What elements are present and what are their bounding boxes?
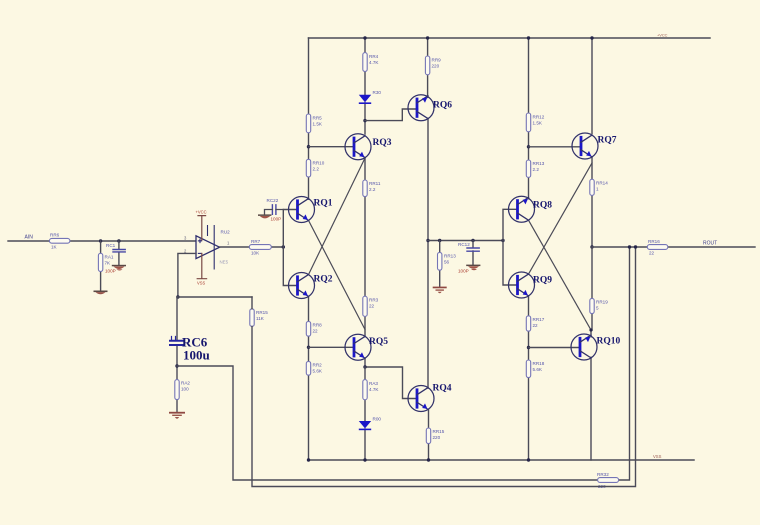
resistor RR12 [526, 113, 544, 132]
svg-text:+VCC: +VCC [657, 32, 668, 37]
svg-text:RR15: RR15 [433, 429, 445, 434]
svg-text:+VCC: +VCC [196, 210, 207, 215]
transistor RQ3 [345, 134, 392, 160]
transistor RQ9 [509, 272, 553, 298]
svg-text:RR6: RR6 [50, 233, 60, 238]
junction VSS RA3 chain [363, 458, 366, 461]
wire base tie RQ8 RQ9 [503, 209, 518, 285]
capacitor C RC1 [106, 243, 125, 252]
transistor RQ7 [572, 133, 617, 159]
resistor RR3 [363, 296, 379, 316]
junction base tie node [282, 245, 285, 248]
svg-text:5.6K: 5.6K [313, 369, 323, 374]
junction VCC RQ7 [590, 36, 593, 39]
svg-text:RA3: RA3 [369, 381, 378, 386]
resistor RA2 [175, 380, 191, 400]
svg-text:22: 22 [533, 323, 539, 328]
wire AIN input line [8, 240, 196, 242]
svg-text:RR11: RR11 [369, 181, 381, 186]
wire VCC rail [309, 37, 711, 39]
capacitor RC6 [170, 337, 184, 346]
wire RQ5 emitter to RQ4 base [365, 358, 418, 398]
junction mid node [426, 239, 429, 242]
svg-text:RR18: RR18 [533, 361, 545, 366]
svg-text:100u: 100u [183, 348, 210, 363]
svg-text:RR2: RR2 [313, 363, 323, 368]
ground near RC22 [258, 214, 271, 218]
svg-text:RQ10: RQ10 [597, 337, 621, 347]
junction base tie mid [501, 239, 504, 242]
svg-text:1K: 1K [51, 244, 58, 249]
wire op-amp inverting input [178, 253, 196, 297]
svg-text:11K: 11K [256, 316, 265, 321]
wire RQ9 emitter chain [528, 296, 530, 460]
svg-text:22: 22 [649, 251, 655, 256]
svg-text:VSS: VSS [653, 454, 662, 459]
junction RQ10 emitter node [589, 328, 592, 331]
power +VCC op-amp [196, 210, 207, 240]
svg-text:56: 56 [444, 260, 450, 265]
junction VCC RR12 [527, 36, 530, 39]
svg-text:RQ5: RQ5 [369, 337, 388, 347]
svg-text:2.2: 2.2 [313, 167, 320, 172]
svg-text:NE5: NE5 [220, 260, 229, 265]
wire RQ7 collector [591, 38, 593, 134]
svg-text:RR15: RR15 [256, 310, 268, 315]
resistor RR6 [49, 233, 70, 250]
wire RQ3 base [309, 146, 355, 148]
transistor RQ4 [408, 384, 452, 412]
svg-text:RQ8: RQ8 [533, 201, 552, 211]
resistor RR8 [306, 321, 322, 336]
svg-text:RA2: RA2 [181, 381, 190, 386]
svg-text:RC22: RC22 [267, 198, 279, 203]
wire diagonal RQ9 to RQ7 [529, 163, 593, 274]
junction VCC RR9 [426, 36, 429, 39]
svg-text:RQ7: RQ7 [598, 136, 617, 146]
svg-text:RQ2: RQ2 [314, 275, 333, 285]
junction RR13 tap [438, 239, 441, 242]
op-amp RU2 [184, 226, 230, 270]
transistor RQ8 [509, 196, 553, 222]
resistor RR16 [647, 239, 668, 256]
svg-text:RC1: RC1 [106, 243, 116, 248]
wire RC1 drop [118, 241, 120, 265]
junction inverting feedback node [176, 295, 179, 298]
transistor RQ5 [345, 334, 388, 360]
wire RA3 diode chain [364, 367, 366, 460]
svg-text:R00: R00 [373, 417, 382, 422]
capacitor RC12 [458, 242, 479, 251]
svg-text:1: 1 [596, 187, 599, 192]
svg-text:RR5: RR5 [313, 116, 323, 121]
svg-text:22: 22 [313, 329, 319, 334]
wire diagonal RQ8 to RQ10 [529, 220, 592, 330]
svg-text:5.6K: 5.6K [533, 367, 543, 372]
junction RQ10 base node [527, 346, 530, 349]
wire output line [592, 246, 755, 248]
wire RQ4 emitter [428, 409, 430, 460]
wire RQ3 collector chain (RR4 diode branch) [364, 38, 366, 134]
wire output drop to RR19 [591, 247, 592, 337]
wire RA1 drop [100, 241, 102, 290]
resistor RR13 [438, 252, 457, 270]
svg-text:VSS: VSS [197, 280, 205, 285]
svg-text:R30: R30 [373, 90, 382, 95]
ground under RA2 [169, 412, 185, 419]
transistor RQ2 [289, 273, 333, 299]
wire RR13 drop [439, 241, 441, 287]
wire diagonal RQ1 to RQ5 collector [309, 220, 366, 329]
svg-text:2.2: 2.2 [369, 187, 376, 192]
svg-text:4.7K: 4.7K [369, 60, 379, 65]
junction RQ5 base node [307, 346, 310, 349]
wire RQ6 base jog [365, 109, 418, 121]
svg-text:RR12: RR12 [533, 115, 545, 120]
wire RQ6 emitter to rail [427, 38, 429, 97]
svg-text:RQ4: RQ4 [433, 384, 452, 394]
wire feedback line B [252, 247, 636, 487]
ground under RC12 [466, 265, 480, 271]
resistor RA3 [363, 380, 380, 400]
junction VSS left chain [307, 458, 310, 461]
svg-text:RR13: RR13 [533, 161, 545, 166]
diode R00 [359, 417, 382, 431]
junction RC12 tap [471, 239, 474, 242]
wire RQ5 base [309, 346, 355, 348]
junction RQ5 emitter node [363, 365, 366, 368]
ground under RC1 [112, 265, 126, 271]
resistor RR19 [590, 298, 608, 313]
wire RQ10 collector drop [590, 357, 592, 460]
resistor RR7 [249, 239, 271, 256]
junction RQ3 base node [307, 145, 310, 148]
svg-text:100P: 100P [105, 269, 116, 274]
svg-text:1.5K: 1.5K [313, 122, 323, 127]
capacitor RC22 [265, 198, 284, 214]
svg-text:100P: 100P [458, 269, 469, 274]
svg-text:RQ3: RQ3 [373, 138, 392, 148]
ground under RA1 [94, 291, 108, 295]
wire RQ3 emitter chain [364, 158, 366, 337]
svg-text:1.5K: 1.5K [533, 121, 543, 126]
svg-text:AIN: AIN [25, 235, 34, 241]
resistor RR2 [306, 361, 323, 375]
transistor RQ10 [571, 334, 621, 360]
svg-text:RR3: RR3 [369, 298, 379, 303]
resistor RA1 [98, 253, 113, 271]
svg-text:RR8: RR8 [313, 323, 323, 328]
wire feedback node to RR15 [178, 296, 252, 298]
wire RC12 drop [472, 241, 474, 265]
svg-text:RU2: RU2 [221, 230, 231, 235]
junction feedback A tap [628, 245, 631, 248]
wire RC6 chain [176, 297, 178, 412]
wire op-amp output [220, 246, 284, 248]
resistor RR32 [597, 472, 619, 489]
svg-text:RQ1: RQ1 [314, 199, 333, 209]
svg-text:220: 220 [432, 64, 440, 69]
wire RQ6 collector drop [427, 118, 429, 388]
wire mid horizontal [428, 240, 503, 242]
svg-text:10K: 10K [251, 251, 260, 256]
svg-text:7K: 7K [105, 261, 112, 266]
svg-text:2.2: 2.2 [533, 167, 540, 172]
wire RQ7 emitter chain [591, 157, 593, 247]
svg-text:RQ9: RQ9 [533, 276, 552, 286]
wire RQ7 base [529, 146, 582, 148]
junction RQ6 base node [363, 119, 366, 122]
resistor RR9 [425, 56, 441, 75]
junction VSS RQ9 chain [527, 458, 530, 461]
svg-text:5: 5 [596, 306, 599, 311]
wire right bias chain [528, 38, 530, 199]
junction feedback B tap [634, 245, 637, 248]
junction VCC RR4 [363, 36, 366, 39]
junction RQ7 base node [527, 145, 530, 148]
svg-text:RR9: RR9 [432, 58, 442, 63]
junction RC6 branch node [175, 364, 178, 367]
resistor RR17 [526, 316, 544, 331]
wire VSS rail [309, 459, 695, 461]
svg-text:RA1: RA1 [105, 255, 114, 260]
wire left bias chain [308, 38, 310, 460]
svg-text:RR32: RR32 [597, 472, 609, 477]
resistor RR15b [426, 428, 444, 444]
junction VSS RQ4 [427, 458, 430, 461]
junction input node A [99, 239, 102, 242]
resistor RR18 [526, 360, 544, 378]
svg-text:RR16: RR16 [648, 239, 660, 244]
svg-text:RR19: RR19 [596, 300, 608, 305]
resistor RR10 [306, 159, 324, 177]
svg-text:RR10: RR10 [313, 161, 325, 166]
svg-text:4.7K: 4.7K [369, 387, 379, 392]
ground under RR13 [433, 287, 447, 294]
svg-text:22: 22 [369, 304, 375, 309]
diode R30 [359, 90, 382, 104]
transistor RQ6 [408, 95, 452, 121]
svg-text:100P: 100P [271, 217, 282, 222]
junction RC1 node [117, 239, 120, 242]
wire feedback line A [177, 247, 630, 480]
svg-text:RR7: RR7 [251, 239, 261, 244]
resistor RR5 [306, 114, 323, 133]
resistor RR15 feedback [250, 309, 268, 327]
svg-text:220: 220 [433, 435, 441, 440]
resistor RR11 [363, 180, 381, 197]
svg-text:RC12: RC12 [458, 242, 470, 247]
transistor RQ1 [289, 197, 333, 223]
junction output node [590, 245, 593, 248]
wire RQ10 base [529, 347, 581, 349]
wire diagonal RQ2 to RQ3 emitter [309, 158, 366, 275]
resistor RR4 [363, 53, 380, 72]
power VSS op-amp ground [197, 254, 207, 286]
svg-text:RR13: RR13 [444, 254, 456, 259]
svg-text:RR14: RR14 [596, 181, 608, 186]
svg-text:RR4: RR4 [369, 54, 379, 59]
resistor RR13c [526, 160, 544, 177]
svg-text:100: 100 [181, 387, 189, 392]
wire RQ1 RQ2 base tie [283, 210, 297, 286]
svg-text:RQ6: RQ6 [433, 100, 452, 110]
resistor RR14 [590, 179, 608, 195]
svg-text:ROUT: ROUT [703, 241, 717, 247]
svg-text:RR17: RR17 [533, 317, 545, 322]
